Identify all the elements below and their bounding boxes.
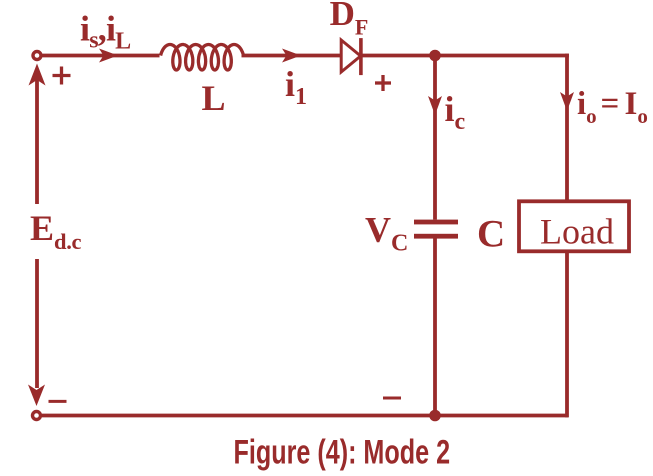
svg-text:Figure (4): Mode 2: Figure (4): Mode 2 bbox=[234, 434, 451, 472]
svg-text:DF: DF bbox=[330, 0, 369, 39]
svg-text:io=Io: io=Io bbox=[577, 86, 648, 128]
svg-text:is,iL: is,iL bbox=[80, 9, 130, 55]
svg-text:L: L bbox=[202, 78, 226, 118]
svg-text:C: C bbox=[477, 213, 505, 256]
svg-text:i1: i1 bbox=[285, 64, 307, 110]
svg-text:ic: ic bbox=[445, 89, 466, 135]
svg-text:Load: Load bbox=[540, 212, 614, 252]
svg-text:Ed.c: Ed.c bbox=[30, 208, 82, 254]
svg-text:VC: VC bbox=[365, 210, 408, 257]
